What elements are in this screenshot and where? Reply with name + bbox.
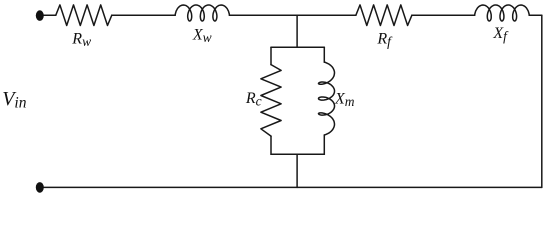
- resistor Rf: [356, 5, 412, 26]
- wire node drop from top rail to parallel box: [296, 15, 298, 47]
- wire Xf to top-right corner: [529, 14, 542, 16]
- svg-text:Rf: Rf: [376, 30, 393, 48]
- wire box bottom: [271, 153, 324, 155]
- svg-text:Rw: Rw: [71, 30, 91, 49]
- inductor Xf: [475, 5, 530, 21]
- terminal dot bottom-left input: [36, 182, 44, 193]
- wire Rw to Xw: [112, 14, 175, 16]
- wire left branch bottom stub: [270, 136, 272, 154]
- wire box top: [271, 46, 324, 48]
- wire drop from box bottom to bottom rail: [296, 154, 298, 187]
- wire top-left from input terminal to Rw: [40, 14, 56, 16]
- wire right edge vertical: [541, 15, 543, 187]
- svg-text:Xw: Xw: [192, 27, 212, 45]
- wire right branch bottom stub: [323, 135, 325, 154]
- svg-text:Xf: Xf: [492, 25, 509, 43]
- svg-text:Xm: Xm: [334, 91, 355, 110]
- wire Xw to Rf through node at top of magnetizing branch: [229, 14, 356, 16]
- wire left branch top stub: [270, 47, 272, 64]
- inductor Xm: [319, 62, 335, 135]
- wire Rf to Xf: [412, 14, 475, 16]
- svg-text:Rc: Rc: [245, 90, 262, 109]
- inductor Xw: [175, 5, 229, 21]
- terminal dot top-left input: [36, 10, 44, 21]
- resistor Rc: [261, 65, 281, 137]
- resistor Rw: [56, 5, 112, 26]
- wire right branch top stub: [323, 47, 325, 62]
- svg-text:Vin: Vin: [2, 88, 27, 112]
- wire bottom rail: [40, 186, 542, 188]
